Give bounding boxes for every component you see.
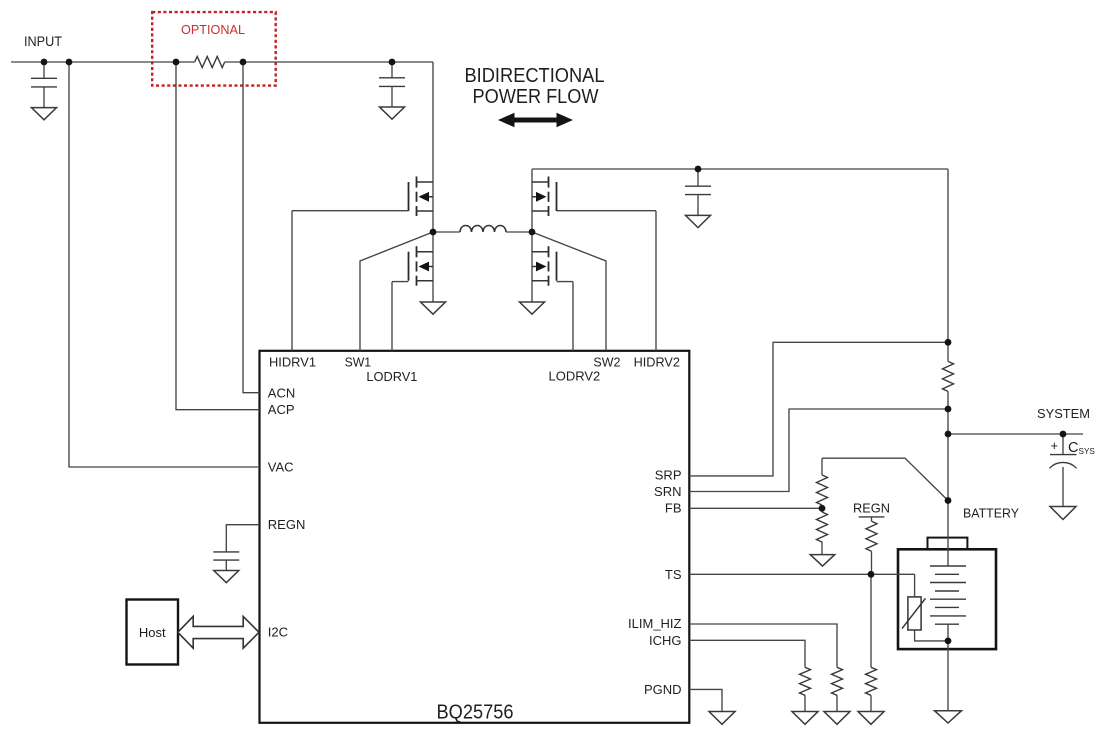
svg-text:HIDRV1: HIDRV1 xyxy=(269,355,316,370)
svg-text:SRP: SRP xyxy=(655,468,682,483)
svg-text:OPTIONAL: OPTIONAL xyxy=(181,22,245,37)
svg-text:Host: Host xyxy=(139,625,166,640)
svg-text:INPUT: INPUT xyxy=(24,33,62,49)
svg-text:TS: TS xyxy=(665,567,682,582)
svg-text:SW2: SW2 xyxy=(593,355,620,370)
svg-text:SRN: SRN xyxy=(654,484,681,499)
svg-text:FB: FB xyxy=(665,501,682,516)
svg-text:ACN: ACN xyxy=(268,385,295,400)
svg-text:POWER FLOW: POWER FLOW xyxy=(473,86,599,108)
svg-text:I2C: I2C xyxy=(268,625,288,640)
svg-text:HIDRV2: HIDRV2 xyxy=(634,355,680,370)
svg-text:LODRV1: LODRV1 xyxy=(366,369,417,384)
svg-text:VAC: VAC xyxy=(268,459,294,474)
svg-text:PGND: PGND xyxy=(644,682,682,697)
svg-text:ILIM_HIZ: ILIM_HIZ xyxy=(628,616,682,631)
svg-text:BATTERY: BATTERY xyxy=(963,506,1019,521)
svg-text:BIDIRECTIONAL: BIDIRECTIONAL xyxy=(465,65,605,87)
svg-text:+: + xyxy=(1051,438,1059,453)
svg-text:LODRV2: LODRV2 xyxy=(549,369,601,384)
svg-text:CSYS: CSYS xyxy=(1068,440,1095,456)
svg-text:SYSTEM: SYSTEM xyxy=(1037,406,1090,421)
svg-text:SW1: SW1 xyxy=(345,355,372,370)
svg-text:REGN: REGN xyxy=(853,501,890,516)
svg-text:ICHG: ICHG xyxy=(649,633,682,648)
svg-text:REGN: REGN xyxy=(268,517,306,532)
svg-text:BQ25756: BQ25756 xyxy=(437,701,514,723)
svg-text:ACP: ACP xyxy=(268,402,295,417)
